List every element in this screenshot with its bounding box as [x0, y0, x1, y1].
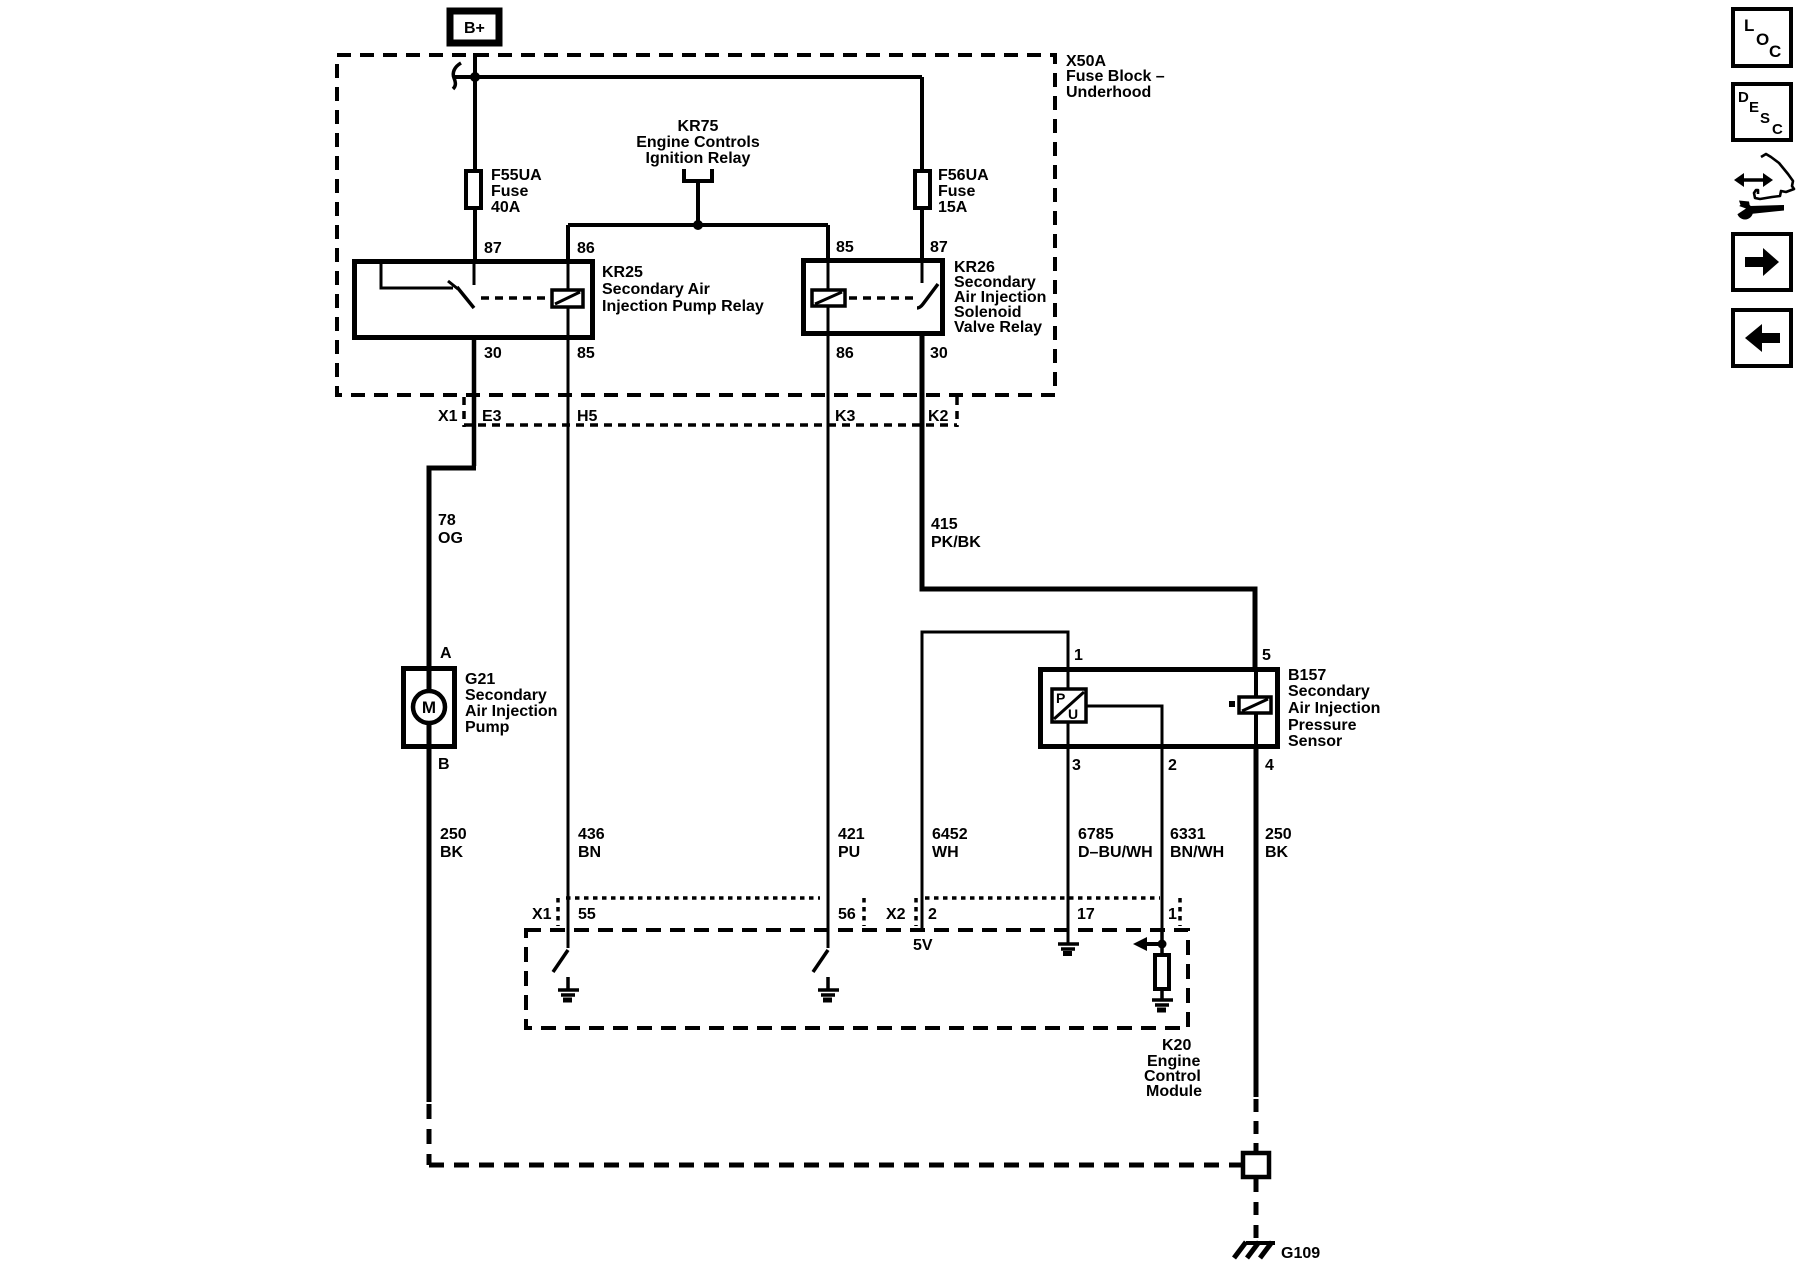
KR25 coil stubs	[567, 261, 570, 290]
fuse F56UA	[920, 77, 924, 169]
wire KR26 pin30 to K2 to sensor pin5 (415 PK/BK)	[922, 336, 1255, 667]
nav icon back arrow	[1733, 310, 1791, 366]
svg-text:17: 17	[1077, 906, 1095, 923]
svg-text:H5: H5	[577, 408, 598, 425]
nav icon forward arrow	[1733, 234, 1791, 290]
svg-text:BK: BK	[1265, 844, 1289, 861]
svg-text:Air Injection: Air Injection	[465, 703, 557, 720]
sensor jog to pin 2	[1086, 706, 1162, 747]
svg-text:E3: E3	[482, 408, 502, 425]
wire sensor pin2 to ECM 1 (6331 BN/WH)	[1161, 749, 1164, 932]
svg-text:436: 436	[578, 826, 605, 843]
wire KR25 pin30 to E3 to pump	[472, 338, 477, 466]
svg-text:Sensor: Sensor	[1288, 733, 1342, 750]
wire dashed to splice	[427, 1104, 432, 1165]
svg-text:B+: B+	[464, 20, 485, 37]
ground at pin1 network	[1152, 998, 1173, 1002]
svg-text:D: D	[1738, 89, 1749, 106]
sensor heater element	[1239, 697, 1271, 713]
svg-text:P: P	[1056, 690, 1065, 706]
svg-text:2: 2	[928, 906, 937, 923]
connector X1 band	[438, 397, 957, 427]
KR26 coil stub top	[827, 260, 830, 290]
sensor pin1 stub	[1067, 669, 1070, 689]
ECM pin17 ground	[1067, 930, 1070, 943]
sensor pin3 stub	[1067, 722, 1070, 747]
svg-text:O: O	[1756, 30, 1769, 49]
svg-text:G109: G109	[1281, 1245, 1320, 1262]
svg-text:4: 4	[1265, 757, 1274, 774]
splice curl	[453, 63, 461, 89]
svg-text:421: 421	[838, 826, 865, 843]
wire B+ down to fuse F55UA	[473, 53, 477, 169]
ground G109	[1234, 1242, 1320, 1262]
svg-text:1: 1	[1168, 906, 1177, 923]
KR26 switch blade	[917, 284, 938, 308]
svg-text:OG: OG	[438, 530, 463, 547]
svg-text:6452: 6452	[932, 826, 968, 843]
svg-text:3: 3	[1072, 757, 1081, 774]
svg-text:S: S	[1760, 110, 1770, 127]
svg-text:B157: B157	[1288, 667, 1326, 684]
junction B+	[470, 72, 480, 82]
wire pump B down (250 BK)	[427, 749, 432, 1102]
svg-text:PK/BK: PK/BK	[931, 534, 981, 551]
svg-text:Fuse: Fuse	[938, 183, 975, 200]
svg-text:BN/WH: BN/WH	[1170, 844, 1224, 861]
svg-text:415: 415	[931, 516, 958, 533]
KR25 coil link dashed	[481, 296, 549, 300]
sensor element stubs	[1254, 669, 1258, 697]
svg-text:Ignition Relay: Ignition Relay	[646, 150, 751, 167]
battery feed B+	[450, 11, 499, 43]
relay KR25 box	[355, 262, 593, 338]
svg-text:Secondary: Secondary	[1288, 683, 1370, 700]
svg-text:87: 87	[484, 240, 502, 257]
svg-text:6785: 6785	[1078, 826, 1114, 843]
svg-text:Valve Relay: Valve Relay	[954, 319, 1042, 336]
KR25 label	[602, 264, 764, 315]
motor circle	[427, 666, 432, 692]
svg-text:85: 85	[577, 345, 595, 362]
sensor P/U transducer	[1052, 689, 1086, 722]
svg-text:Underhood: Underhood	[1066, 84, 1151, 101]
svg-text:Air Injection: Air Injection	[1288, 700, 1380, 717]
svg-text:B: B	[438, 756, 450, 773]
nav icon wiring/wrench	[1734, 154, 1794, 220]
wire fuse F56UA to KR26 pin 87	[920, 210, 924, 258]
svg-text:X1: X1	[438, 408, 458, 425]
junction KR75	[693, 220, 703, 230]
svg-text:15A: 15A	[938, 199, 968, 216]
B157 label	[1288, 667, 1380, 750]
wire ignition feed horizontal	[568, 223, 828, 227]
svg-text:C: C	[1769, 42, 1781, 61]
fuse block X50A dashed border	[337, 55, 1055, 395]
svg-text:D–BU/WH: D–BU/WH	[1078, 844, 1153, 861]
svg-text:BK: BK	[440, 844, 464, 861]
ECM connector row X2	[886, 898, 1180, 926]
ground at pin55 driver	[566, 977, 570, 990]
svg-text:G21: G21	[465, 671, 495, 688]
KR26 pin87 stub	[921, 260, 924, 283]
KR25 contact tick	[448, 281, 458, 289]
svg-text:M: M	[422, 698, 436, 717]
arrow into ECM	[1146, 942, 1162, 946]
X50A label	[1066, 53, 1165, 101]
svg-text:BN: BN	[578, 844, 601, 861]
svg-text:Injection Pump Relay: Injection Pump Relay	[602, 298, 764, 315]
svg-text:250: 250	[1265, 826, 1292, 843]
svg-text:1: 1	[1074, 647, 1083, 664]
svg-text:30: 30	[930, 345, 948, 362]
wire horizontal feed to F56UA	[453, 75, 922, 79]
wire sensor pin1 to ECM 2 (6452 WH)	[922, 632, 1068, 931]
motor G21 box	[404, 669, 455, 747]
KR25 internal L wire	[381, 261, 453, 288]
svg-text:KR25: KR25	[602, 264, 643, 281]
ECM pin1 input network	[1160, 930, 1164, 955]
wire sensor pin4 down (250 BK)	[1254, 749, 1259, 1097]
svg-text:Module: Module	[1146, 1083, 1202, 1100]
relay KR26 box	[804, 261, 943, 334]
svg-text:40A: 40A	[491, 199, 521, 216]
svg-text:PU: PU	[838, 844, 860, 861]
svg-text:Pump: Pump	[465, 719, 510, 736]
wire sensor pin3 to ECM 17 (6785 D-BU/WH)	[1067, 749, 1070, 932]
wire 250 BK dashed to splice	[1254, 1099, 1259, 1152]
svg-text:K2: K2	[928, 408, 949, 425]
svg-text:F56UA: F56UA	[938, 167, 989, 184]
svg-text:86: 86	[836, 345, 854, 362]
ECM pin55 driver switch	[567, 930, 570, 948]
wire splice to G109 dashed	[1254, 1179, 1259, 1242]
svg-text:Engine Controls: Engine Controls	[636, 134, 760, 151]
svg-text:F55UA: F55UA	[491, 167, 542, 184]
svg-text:6331: 6331	[1170, 826, 1206, 843]
svg-text:5V: 5V	[913, 937, 933, 954]
K20 label	[1144, 1037, 1202, 1100]
svg-text:K20: K20	[1162, 1037, 1191, 1054]
wire to KR25 pin 86	[566, 225, 570, 259]
KR26 label	[954, 259, 1046, 336]
KR26 coil stub bottom	[827, 306, 830, 334]
svg-text:78: 78	[438, 512, 456, 529]
svg-text:85: 85	[836, 239, 854, 256]
KR26 coil link dashed	[849, 296, 914, 300]
svg-text:U: U	[1068, 706, 1078, 722]
svg-text:55: 55	[578, 906, 596, 923]
svg-text:A: A	[440, 645, 452, 662]
svg-text:KR75: KR75	[678, 118, 719, 135]
svg-text:250: 250	[440, 826, 467, 843]
sensor B157 box	[1041, 670, 1278, 747]
svg-text:C: C	[1772, 121, 1783, 138]
svg-text:5: 5	[1262, 647, 1271, 664]
svg-text:L: L	[1744, 16, 1754, 35]
splice S box	[1243, 1153, 1269, 1177]
KR75 bracket symbol	[684, 169, 712, 181]
relay KR75 label	[636, 118, 760, 167]
KR26 coil	[812, 290, 845, 306]
ground at pin56 driver	[826, 977, 830, 990]
svg-text:56: 56	[838, 906, 856, 923]
fuse F55UA	[466, 167, 542, 216]
KR25 coil	[552, 290, 583, 307]
ECM K20 dashed box	[526, 930, 1188, 1028]
wire KR26 pin86 to K3 to ECM 56 (421 PU)	[827, 336, 830, 936]
svg-text:E: E	[1749, 99, 1759, 116]
KR25 switch blade	[457, 287, 474, 308]
G21 label	[465, 671, 557, 736]
svg-text:86: 86	[577, 240, 595, 257]
wire KR75 stem	[696, 181, 700, 225]
nav icon LOC	[1733, 9, 1791, 66]
ECM connector row X1	[532, 898, 864, 926]
wire to KR26 pin 85	[826, 225, 830, 258]
svg-text:Secondary: Secondary	[465, 687, 547, 704]
wire KR25 pin85 to H5 to ECM 55 (436 BN)	[567, 338, 570, 936]
svg-text:Fuse Block –: Fuse Block –	[1066, 68, 1165, 85]
ECM pin56 driver switch	[827, 930, 830, 948]
resistor	[1155, 955, 1169, 989]
svg-text:Secondary Air: Secondary Air	[602, 281, 710, 298]
svg-text:Fuse: Fuse	[491, 183, 528, 200]
svg-text:WH: WH	[932, 844, 959, 861]
wire fuse F55UA to KR25 pin 87	[473, 210, 477, 259]
nav icon DESC	[1733, 84, 1791, 140]
svg-text:X2: X2	[886, 906, 906, 923]
svg-text:87: 87	[930, 239, 948, 256]
KR25 pin87 stub	[473, 261, 476, 285]
svg-text:X1: X1	[532, 906, 552, 923]
svg-text:K3: K3	[835, 408, 856, 425]
svg-text:2: 2	[1168, 757, 1177, 774]
svg-text:Pressure: Pressure	[1288, 717, 1357, 734]
svg-text:30: 30	[484, 345, 502, 362]
